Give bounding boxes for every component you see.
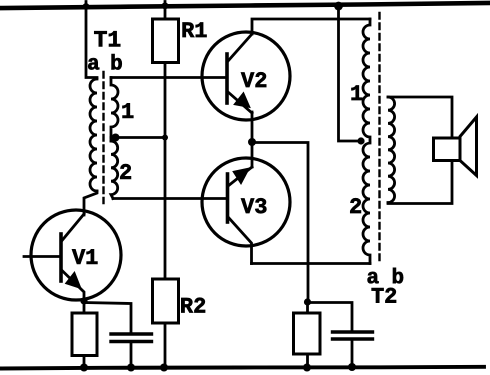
node divider junction	[162, 135, 168, 141]
wire V2 emitter down to junction	[251, 112, 254, 167]
svg-text:R2: R2	[180, 294, 206, 319]
wire T1 primary bottom to V1 collector	[84, 191, 97, 215]
transistor V1 emitter arrow	[66, 272, 82, 289]
svg-text:R1: R1	[181, 19, 207, 44]
speaker driver box	[434, 138, 461, 161]
resistor R1	[153, 19, 179, 63]
wire V1 base input lead	[24, 255, 61, 258]
node supply rail dot for T2 tap	[334, 2, 343, 11]
transistor V3 circle	[202, 158, 290, 246]
T1 core dashed line	[102, 72, 104, 203]
wire R2 bottom lead	[164, 323, 167, 368]
transistor V3 collector	[228, 217, 252, 264]
transistor V1 collector	[62, 214, 84, 241]
transistor V2 emitter arrow	[234, 93, 250, 108]
wire V3 collector to T2 winding2	[252, 262, 371, 265]
node V2/V3 emitter junction dot	[248, 138, 256, 146]
transformer T1 secondary winding 1	[111, 78, 118, 142]
wire top supply rail	[2, 3, 488, 8]
wire R1 bottom to R2	[164, 63, 167, 280]
transistor V3 emitter	[228, 167, 252, 186]
transistor V1 base bar	[59, 234, 63, 281]
transformer T1 primary winding	[90, 79, 97, 191]
node T2 center tap dot	[357, 137, 364, 144]
wire R1 top lead	[164, 2, 167, 20]
node V1 emitter junction dot	[80, 297, 87, 304]
wire T2 secondary bottom to speaker	[388, 161, 452, 204]
svg-text:2: 2	[119, 161, 132, 186]
svg-text:b: b	[110, 53, 123, 76]
wire output resistor to ground	[306, 354, 309, 368]
node rail junction dot at R1	[162, 2, 169, 9]
wire emitter junction to bypass capacitor	[84, 303, 131, 334]
svg-text:V2: V2	[241, 69, 267, 94]
wire output capacitor to ground	[351, 339, 354, 368]
svg-text:1: 1	[121, 100, 134, 125]
transistor V2 base bar	[225, 54, 229, 103]
resistor V1 emitter	[72, 313, 97, 356]
wire output junction to capacitor	[308, 303, 352, 332]
capacitor output bottom plate	[333, 337, 373, 340]
capacitor bypass left bottom plate	[111, 340, 152, 343]
svg-text:2: 2	[349, 195, 362, 220]
node bypass capacitor ground dot	[127, 364, 135, 372]
transistor V3 emitter arrow	[233, 168, 250, 184]
capacitor bypass left top plate	[111, 332, 152, 335]
node emitter resistor ground dot	[80, 364, 88, 372]
wire V1 emitter resistor to ground	[83, 356, 86, 369]
node output capacitor ground dot	[348, 363, 356, 371]
svg-text:a: a	[87, 53, 100, 76]
transistor V2 circle	[202, 32, 290, 120]
wire supply rail to T2 center tap	[339, 6, 364, 141]
wire T1 winding2 to V3 base	[113, 197, 228, 200]
svg-text:T2: T2	[371, 285, 397, 310]
wire output resistor top lead	[306, 302, 309, 313]
wire T1 winding1 to V2 base	[111, 76, 227, 79]
wire T1 primary top lead from rail	[86, 2, 97, 78]
transistor V2 collector	[228, 34, 252, 61]
transistor V1 circle	[31, 210, 121, 300]
transistor V2 emitter	[228, 92, 252, 113]
wire bypass capacitor to ground	[130, 342, 133, 369]
resistor R2	[153, 279, 179, 323]
transistor V1 emitter	[62, 271, 84, 314]
node output resistor ground dot	[303, 364, 311, 372]
wire bottom ground rail	[1, 367, 484, 369]
node T1 secondary tap junction dot	[112, 134, 120, 142]
svg-text:V1: V1	[72, 246, 98, 271]
svg-text:V3: V3	[241, 195, 267, 220]
wire T2 secondary top to speaker	[388, 97, 452, 138]
transformer T2 secondary winding	[388, 97, 395, 203]
wire emitter junction to output column	[252, 143, 308, 303]
node rail junction dot at T1	[83, 3, 90, 10]
transformer T2 primary winding 1	[363, 19, 370, 141]
T2 core dashed line	[378, 13, 380, 265]
svg-text:1: 1	[350, 82, 363, 107]
speaker cone	[460, 117, 477, 176]
node R2 ground dot	[160, 364, 168, 372]
wire T1 tap to R1/R2 divider	[111, 136, 165, 139]
transformer T1 secondary winding 2	[111, 141, 118, 199]
transistor V3 base bar	[226, 174, 230, 222]
transformer T2 primary winding 2	[363, 143, 370, 264]
capacitor output top plate	[333, 330, 373, 333]
wire V2 collector to T2 winding1	[252, 19, 370, 34]
resistor output bias	[294, 313, 321, 354]
node output junction dot	[304, 298, 311, 305]
svg-text:T1: T1	[94, 27, 122, 53]
